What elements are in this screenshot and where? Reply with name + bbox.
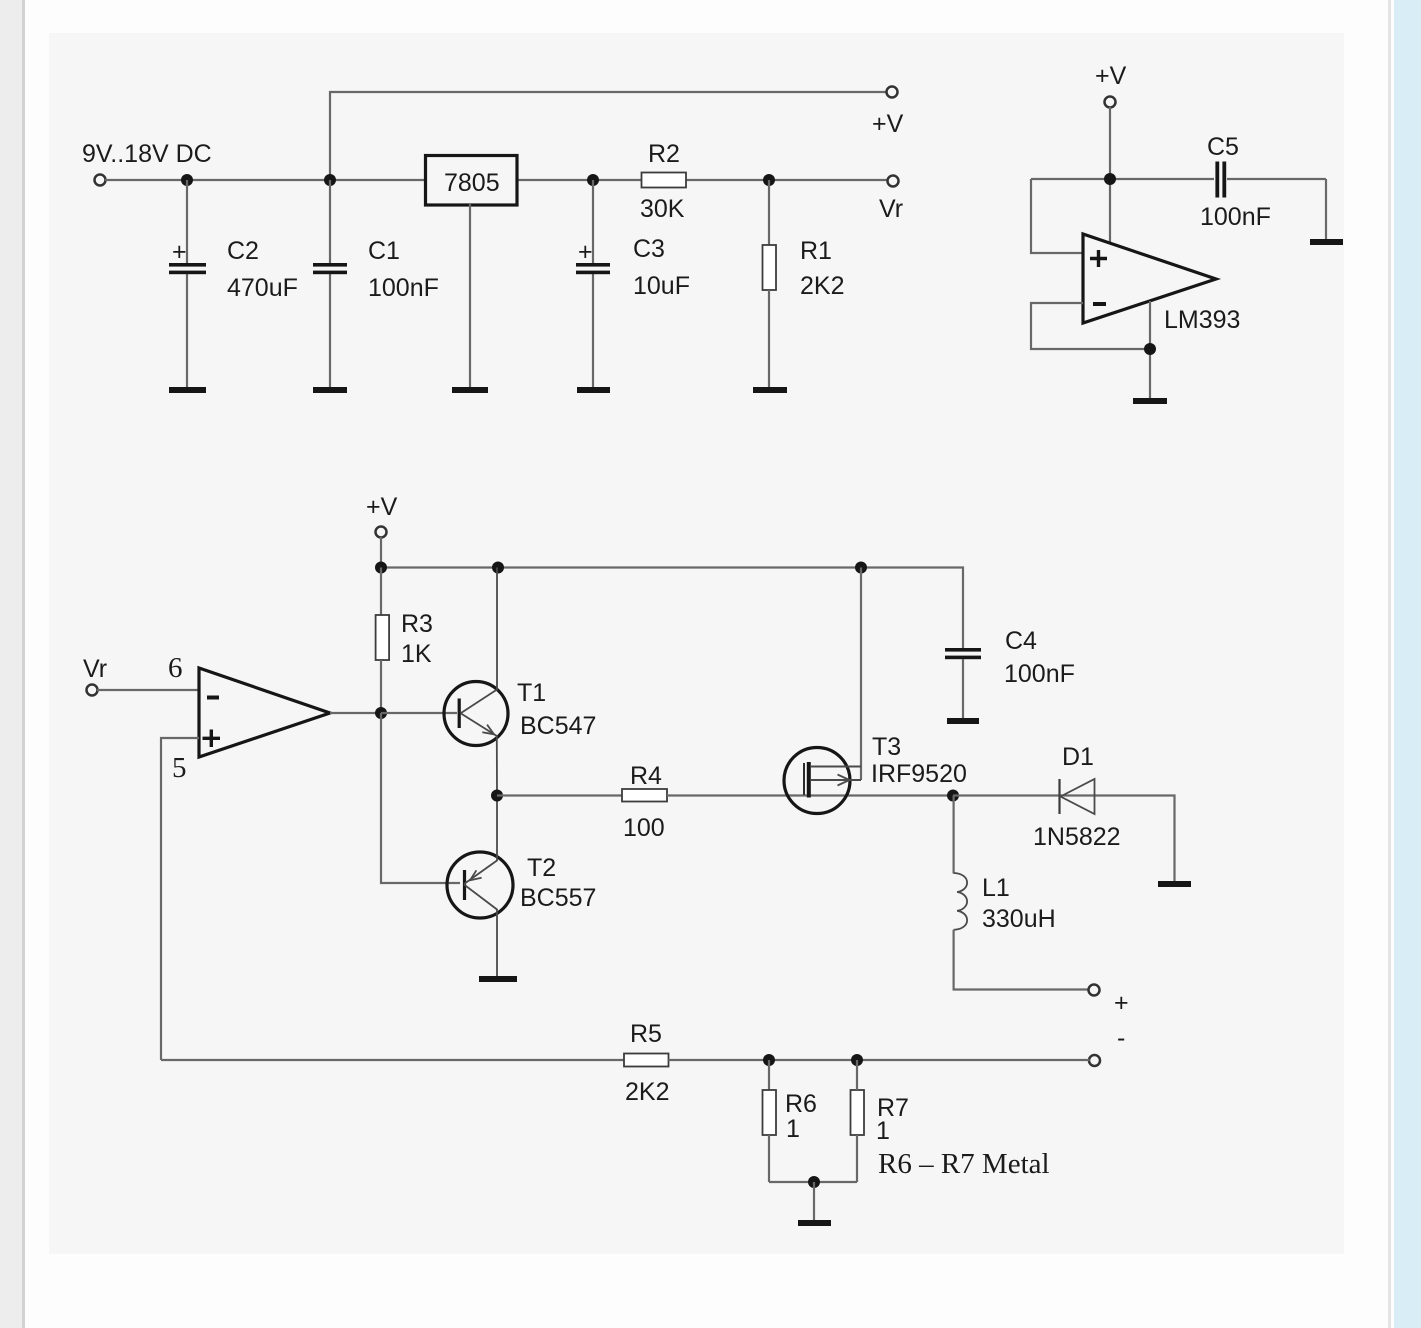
- wire R3 bottom lead: [380, 660, 382, 713]
- wire output to T1 base: [381, 712, 457, 714]
- terminal minus output: [1089, 1055, 1100, 1066]
- svg-text:L1: L1: [982, 874, 1010, 902]
- svg-text:470uF: 470uF: [227, 274, 298, 302]
- resistor R5: [624, 1054, 669, 1067]
- terminal +V main: [376, 527, 387, 538]
- svg-text:+V: +V: [1095, 62, 1127, 90]
- ground LM393: [1133, 398, 1167, 404]
- ground C2: [169, 387, 206, 393]
- resistor R4: [622, 789, 667, 802]
- diode D1: [1058, 779, 1060, 814]
- node junction rail T1: [492, 562, 504, 574]
- svg-text:10uF: 10uF: [633, 272, 690, 300]
- terminal plus output: [1089, 985, 1100, 996]
- wire R7 leads: [856, 1060, 858, 1090]
- svg-text:BC547: BC547: [520, 712, 596, 740]
- wire minus-input loop: [1031, 303, 1150, 349]
- svg-text:2K2: 2K2: [625, 1078, 669, 1106]
- svg-text:6: 6: [168, 652, 183, 684]
- wire rail to T3 gate: [860, 568, 862, 781]
- svg-text:T3: T3: [872, 733, 901, 761]
- ground C1: [313, 387, 347, 393]
- wire C4 to ground: [962, 659, 964, 718]
- ground C4: [947, 718, 979, 724]
- wire R6 bottom lead: [768, 1135, 770, 1182]
- node junction rail T3: [855, 562, 867, 574]
- capacitor C3: [576, 263, 610, 267]
- wire pin5 feedback: [161, 738, 199, 1060]
- svg-text:Vr: Vr: [83, 655, 107, 683]
- regulator 7805: [426, 156, 518, 206]
- svg-text:C1: C1: [368, 237, 400, 265]
- svg-text:LM393: LM393: [1164, 306, 1240, 334]
- svg-text:9V..18V DC: 9V..18V DC: [82, 140, 212, 168]
- transistor Q T2: [447, 852, 513, 918]
- wire bottom sense left: [161, 1059, 624, 1061]
- svg-text:R3: R3: [401, 610, 433, 638]
- op-amp U2: [199, 668, 330, 757]
- svg-text:T2: T2: [527, 854, 556, 882]
- node junction ground sense: [808, 1176, 820, 1188]
- op-amp plus sign: [1090, 250, 1107, 267]
- wire R4 to T3 junction: [667, 794, 953, 796]
- wire R4 left lead: [497, 794, 622, 796]
- node junction C3: [587, 174, 599, 186]
- node junction R7: [851, 1054, 863, 1066]
- wire 7805 ground lead: [469, 204, 471, 388]
- capacitor C2: [169, 263, 206, 267]
- ground T2: [479, 976, 517, 982]
- resistor R7: [851, 1090, 865, 1135]
- resistor R2: [642, 173, 687, 188]
- terminal +V LM393: [1105, 97, 1116, 108]
- wire +V supply to op-amp: [1109, 107, 1111, 243]
- transistor Q T1: [444, 682, 508, 746]
- op-amp U2 plus sign: [203, 730, 221, 748]
- svg-text:R6: R6: [785, 1090, 817, 1118]
- svg-text:30K: 30K: [640, 195, 685, 223]
- svg-text:R1: R1: [800, 237, 832, 265]
- svg-text:-: -: [1117, 1024, 1125, 1052]
- svg-text:BC557: BC557: [520, 884, 596, 912]
- wire top rail LM393 left: [1031, 178, 1214, 180]
- svg-text:1: 1: [876, 1117, 890, 1145]
- input terminal: [95, 175, 106, 186]
- svg-text:100nF: 100nF: [368, 274, 439, 302]
- wire C2 leads: [186, 180, 188, 263]
- left gray strip: [0, 0, 22, 1328]
- transistor T3 MOSFET: [784, 748, 850, 814]
- capacitor C1: [313, 263, 347, 267]
- svg-text:+: +: [172, 238, 187, 266]
- ground R1: [753, 387, 787, 393]
- wire R1 lead top: [768, 180, 770, 245]
- ground C5: [1310, 239, 1343, 245]
- node junction T3 drain: [947, 790, 959, 802]
- svg-text:Vr: Vr: [879, 195, 903, 223]
- svg-text:+: +: [578, 238, 593, 266]
- node junction output: [375, 707, 387, 719]
- op-amp U1 LM393: [1083, 234, 1216, 323]
- op-amp minus sign: [1093, 302, 1106, 306]
- resistor R1: [763, 245, 777, 290]
- svg-text:330uH: 330uH: [982, 905, 1056, 933]
- ground D1: [1158, 881, 1191, 887]
- svg-text:100nF: 100nF: [1004, 660, 1075, 688]
- wire T3 to D1 corner: [953, 796, 1175, 882]
- op-amp U2 minus sign: [207, 696, 219, 700]
- ground 7805: [452, 387, 488, 393]
- terminal Vr main: [87, 685, 98, 696]
- svg-text:100: 100: [623, 814, 665, 842]
- node junction R4: [491, 790, 503, 802]
- svg-text:IRF9520: IRF9520: [871, 760, 967, 788]
- svg-text:C3: C3: [633, 235, 665, 263]
- node junction rail R3: [375, 562, 387, 574]
- node junction C1: [324, 174, 336, 186]
- wire R6 top lead: [768, 1060, 770, 1090]
- svg-text:C5: C5: [1207, 133, 1239, 161]
- svg-text:D1: D1: [1062, 743, 1094, 771]
- svg-text:100nF: 100nF: [1200, 203, 1271, 231]
- wire +V to rail: [380, 537, 382, 568]
- wire C3 leads: [592, 180, 594, 263]
- capacitor C4: [945, 648, 981, 652]
- resistor R6: [763, 1090, 777, 1135]
- wire C1 leads: [329, 180, 331, 263]
- wire C5 to ground: [1325, 179, 1327, 239]
- wire plus-input loop: [1031, 179, 1083, 253]
- capacitor C5: [1215, 162, 1219, 198]
- svg-text:5: 5: [172, 752, 187, 784]
- svg-text:2K2: 2K2: [800, 272, 844, 300]
- right blue strip: [1394, 0, 1421, 1328]
- resistor R3: [376, 615, 390, 660]
- svg-text:C4: C4: [1005, 627, 1037, 655]
- wire Vr to op-amp: [97, 689, 199, 691]
- svg-text:R5: R5: [630, 1020, 662, 1048]
- svg-text:+V: +V: [872, 110, 904, 138]
- wire to ground sense: [813, 1182, 815, 1220]
- node junction R6: [763, 1054, 775, 1066]
- wire L1 to plus terminal: [954, 930, 1089, 990]
- terminal +V top: [887, 87, 898, 98]
- wire junction to L1: [952, 796, 954, 874]
- wire input to 7805: [105, 179, 426, 181]
- wire bottom sense right: [669, 1059, 1090, 1061]
- inductor L1: [954, 873, 968, 930]
- wire output to T2 base: [381, 713, 460, 883]
- svg-text:7805: 7805: [444, 169, 500, 197]
- node junction C2: [181, 174, 193, 186]
- wire op-amp output: [330, 712, 381, 714]
- right border line: [1388, 0, 1391, 1328]
- node junction R1: [763, 174, 775, 186]
- wire R6 R7 join: [769, 1181, 857, 1183]
- svg-text:T1: T1: [517, 679, 546, 707]
- svg-text:1: 1: [786, 1115, 800, 1143]
- svg-text:1K: 1K: [401, 640, 432, 668]
- svg-text:R6 – R7 Metal: R6 – R7 Metal: [878, 1148, 1050, 1180]
- svg-text:R2: R2: [648, 140, 680, 168]
- node junction +V rail: [1104, 173, 1116, 185]
- svg-text:+: +: [1114, 989, 1129, 1017]
- ground R6 R7: [798, 1220, 831, 1226]
- ground C3: [577, 387, 610, 393]
- svg-text:+V: +V: [366, 493, 398, 521]
- wire 7805 out to Vr terminal: [516, 179, 888, 181]
- wire R1 lead bottom: [768, 290, 770, 388]
- svg-text:C2: C2: [227, 237, 259, 265]
- wire R3 top lead: [380, 568, 382, 616]
- terminal Vr: [888, 176, 899, 187]
- left border line: [22, 0, 25, 1328]
- svg-text:R4: R4: [630, 762, 662, 790]
- node junction Vee: [1144, 343, 1156, 355]
- wire bypass top: [330, 92, 887, 180]
- wire top rail LM393 right of C5: [1227, 178, 1326, 180]
- svg-text:1N5822: 1N5822: [1033, 823, 1121, 851]
- wire op-amp Vee to ground: [1149, 301, 1151, 398]
- wire +V rail: [381, 568, 963, 649]
